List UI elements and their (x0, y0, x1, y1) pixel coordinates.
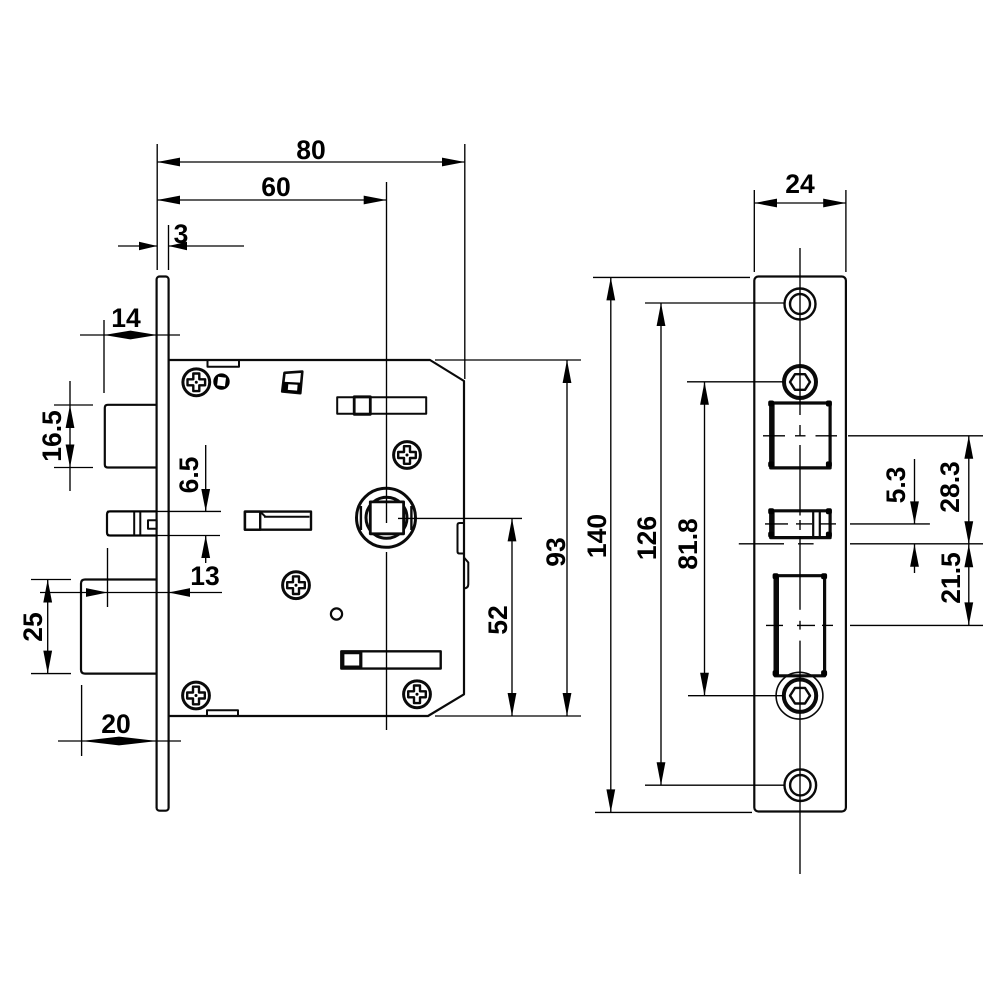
svg-text:13: 13 (190, 561, 219, 591)
svg-text:25: 25 (18, 612, 48, 641)
svg-text:81.8: 81.8 (673, 518, 703, 570)
svg-text:21.5: 21.5 (936, 552, 966, 604)
svg-text:126: 126 (632, 516, 662, 560)
svg-text:20: 20 (101, 709, 130, 739)
svg-text:140: 140 (582, 514, 612, 558)
svg-text:80: 80 (296, 135, 325, 165)
svg-text:6.5: 6.5 (174, 457, 204, 494)
svg-text:24: 24 (785, 169, 815, 199)
svg-text:52: 52 (483, 605, 513, 634)
svg-text:14: 14 (111, 303, 141, 333)
svg-text:93: 93 (541, 537, 571, 566)
svg-text:5.3: 5.3 (881, 467, 911, 504)
svg-text:16.5: 16.5 (37, 410, 67, 462)
svg-text:60: 60 (261, 172, 290, 202)
svg-text:3: 3 (174, 219, 189, 249)
svg-text:28.3: 28.3 (935, 461, 965, 513)
